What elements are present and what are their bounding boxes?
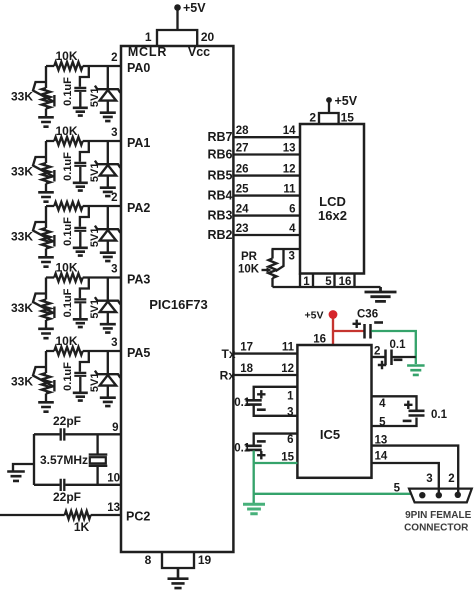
svg-text:1K: 1K [74, 520, 90, 534]
svg-text:+5V: +5V [335, 94, 358, 108]
wire IC5 pin6 net [254, 434, 298, 445]
capacitor 0.1uF (PA0) [80, 66, 89, 87]
svg-text:PA2: PA2 [127, 201, 150, 215]
svg-text:10K: 10K [55, 49, 77, 63]
polarity + (pin2 cap) [378, 361, 386, 369]
capacitor 0.1uF (PA3) [80, 278, 89, 299]
svg-text:5V1: 5V1 [89, 88, 101, 108]
label 0.1uF (PA0) [62, 77, 74, 106]
power +5V rail (top, MCLR/Vcc) [174, 1, 206, 30]
svg-text:16: 16 [339, 276, 352, 288]
svg-text:18: 18 [240, 363, 253, 375]
svg-text:33K: 33K [11, 375, 33, 389]
connector pin dot 1 [455, 492, 461, 498]
svg-text:RB6: RB6 [207, 147, 232, 161]
connector J1 9PIN FEMALE body [409, 489, 472, 503]
svg-text:2: 2 [111, 192, 117, 204]
svg-text:19: 19 [198, 553, 212, 567]
svg-text:23: 23 [236, 223, 249, 235]
svg-text:RB4: RB4 [207, 188, 232, 202]
zener D 5V1 (PA3) [107, 278, 109, 301]
wire TX net (pin17 to 11) [233, 352, 297, 354]
wire PA3 input net [46, 276, 121, 278]
svg-text:9PIN FEMALE: 9PIN FEMALE [405, 510, 471, 521]
svg-text:5V1: 5V1 [89, 299, 101, 319]
svg-text:11: 11 [283, 184, 296, 196]
thermistor 33K (PA2) [42, 228, 51, 249]
wire OSC left vertical [33, 434, 35, 485]
zener D 5V1 (PA0) [107, 66, 109, 89]
svg-text:17: 17 [240, 342, 253, 354]
label 5V1 (PA0) [89, 88, 101, 108]
ground (zener PA3) [100, 324, 116, 332]
svg-text:RB7: RB7 [207, 130, 232, 144]
polarity + (C36) [353, 320, 361, 328]
op LCD 16x2 box [300, 124, 364, 274]
ground (33K PA1) [38, 192, 54, 201]
label 0.1uF (PA3) [62, 288, 74, 317]
svg-text:RB5: RB5 [207, 168, 232, 182]
svg-text:6: 6 [289, 204, 295, 216]
thermistor 33K (PA5) [42, 373, 51, 394]
wire RB4 net [233, 194, 300, 196]
svg-text:10K: 10K [55, 124, 77, 138]
wire IC5 pin14 to connector pin3 [372, 463, 439, 495]
svg-text:8: 8 [145, 553, 152, 567]
ground (33K PA3) [38, 329, 54, 338]
pot PR 10K [271, 249, 273, 259]
resistor 1K [65, 511, 91, 519]
ground (0.1uF PA5) [73, 393, 88, 401]
svg-text:Vcc: Vcc [188, 45, 210, 59]
svg-text:10K: 10K [55, 334, 77, 348]
svg-text:+5V: +5V [183, 1, 206, 15]
wire +5V to pin16 (red) [332, 318, 334, 345]
wire IC5 pin15 net (green) [254, 451, 298, 505]
power +5V rail (LCD) [326, 94, 358, 113]
svg-text:LCD: LCD [319, 194, 346, 209]
resistor 10K (PA1) [54, 137, 82, 145]
svg-text:24: 24 [236, 204, 249, 216]
crystal X1 3.57MHz [96, 434, 98, 455]
ground (zener PA2) [100, 253, 116, 261]
wire 33K branch (PA2) [45, 206, 47, 228]
wire IC5 pins4/5 bracket [372, 396, 417, 426]
svg-text:3: 3 [111, 127, 117, 139]
wire LCD pins 1/5/16 ground net [273, 286, 381, 288]
resistor 10K (PA5) [54, 347, 82, 355]
svg-text:33K: 33K [11, 165, 33, 179]
capacitor 0.1uF (PA1) [80, 141, 89, 162]
label 5V1 (PA2) [89, 228, 101, 248]
svg-text:25: 25 [236, 184, 249, 196]
capacitor 0.1 (pin2) [386, 350, 392, 366]
svg-text:CONNECTOR: CONNECTOR [404, 523, 469, 534]
svg-text:13: 13 [107, 502, 120, 514]
wire RB3 net [233, 214, 300, 216]
svg-text:33K: 33K [11, 90, 33, 104]
capacitor 0.1 (pins4/5) [409, 411, 425, 416]
svg-text:0.1uF: 0.1uF [62, 362, 74, 391]
connector pin dot 3 [419, 492, 425, 498]
capacitor 0.1uF (PA5) [80, 351, 89, 372]
svg-text:0.1uF: 0.1uF [62, 77, 74, 106]
svg-text:3: 3 [111, 264, 117, 276]
wire OSC2 pin10 net [34, 484, 121, 486]
polarity + (pins6/15 cap) [257, 451, 265, 459]
capacitor 0.1 (pins1/3) [246, 400, 262, 404]
svg-text:Tx: Tx [221, 347, 235, 361]
svg-text:16: 16 [313, 334, 326, 346]
label 0.1uF (PA5) [62, 362, 74, 391]
wire C36 to ground (green) [372, 331, 416, 364]
wire RB6 net [233, 153, 300, 155]
wire LCD pins 2/15 bracket [319, 113, 339, 124]
polarity - (pins4/5 cap) [403, 420, 412, 423]
svg-text:3: 3 [287, 407, 293, 419]
svg-text:5V1: 5V1 [89, 228, 101, 248]
wire MCLR/Vcc bracket to +5V [157, 30, 197, 46]
svg-text:5: 5 [394, 483, 401, 495]
svg-text:10K: 10K [238, 264, 260, 276]
svg-text:PR: PR [241, 251, 258, 263]
zener D 5V1 (PA2) [107, 206, 109, 229]
svg-text:33K: 33K [11, 230, 33, 244]
svg-text:14: 14 [283, 125, 296, 137]
zener D 5V1 (PA5) [107, 351, 109, 374]
svg-text:3: 3 [426, 473, 432, 485]
wire IC5 pins1/3 bracket [254, 387, 298, 416]
thermistor 33K (PA1) [42, 163, 51, 184]
svg-text:1: 1 [145, 30, 152, 44]
svg-text:5V1: 5V1 [89, 373, 101, 393]
polarity + (pins4/5 cap) [404, 401, 412, 409]
label 5V1 (PA5) [89, 373, 101, 393]
ground (pin15, green) [243, 504, 265, 513]
polarity + (pins1/3 cap) [257, 390, 265, 398]
wire ground branch (crystal) [13, 464, 34, 471]
connector pin dot 2 [436, 492, 442, 498]
zener D 5V1 (PA1) [107, 141, 109, 164]
svg-text:PIC16F73: PIC16F73 [149, 297, 208, 312]
wire 33K branch (PA0) [45, 66, 47, 88]
svg-text:5: 5 [379, 417, 386, 429]
svg-text:14: 14 [375, 451, 388, 463]
svg-text:0.1uF: 0.1uF [62, 288, 74, 317]
svg-text:PA1: PA1 [127, 136, 150, 150]
wire IC5 pin13 to connector pin2 [372, 446, 459, 495]
power +5V node (IC5, red) [305, 310, 338, 322]
polarity - (C36) [374, 321, 383, 324]
op IC U1 PIC16F73 box [121, 46, 233, 552]
svg-text:2: 2 [374, 346, 380, 358]
wire +5V to C36 (red) [333, 330, 364, 332]
svg-text:C36: C36 [357, 309, 378, 321]
svg-text:3.57MHz: 3.57MHz [40, 453, 88, 467]
ground (LCD) [365, 287, 397, 301]
svg-text:2: 2 [111, 52, 117, 64]
wire RB7 net [233, 136, 300, 138]
svg-text:12: 12 [283, 164, 296, 176]
svg-text:+5V: +5V [305, 310, 324, 322]
capacitor 0.1 (pins6/15) [246, 446, 262, 450]
wire PA0 input net [46, 65, 121, 67]
svg-text:33K: 33K [11, 301, 33, 315]
svg-text:13: 13 [375, 435, 388, 447]
svg-text:22pF: 22pF [53, 414, 81, 428]
label 5V1 (PA3) [89, 299, 101, 319]
svg-text:15: 15 [341, 111, 355, 125]
resistor 10K (PA3) [54, 274, 82, 282]
svg-text:22pF: 22pF [53, 490, 81, 504]
svg-text:0.1: 0.1 [234, 397, 251, 409]
wire PC2 net [0, 514, 121, 516]
svg-text:MCLR: MCLR [128, 45, 167, 59]
polarity - (pin2 cap) [394, 358, 403, 361]
capacitor 0.1uF (PA2) [80, 206, 89, 227]
wire RB5 net [233, 174, 300, 176]
wire connector pin5 net (green) [254, 493, 411, 495]
svg-text:1: 1 [287, 391, 294, 403]
op IC U5 box [297, 345, 371, 478]
ground (0.1uF PA3) [73, 319, 88, 327]
capacitor C36 [365, 324, 371, 339]
svg-text:10: 10 [107, 473, 120, 485]
ground (C36, green) [407, 366, 425, 375]
svg-text:9: 9 [112, 422, 118, 434]
ground (PIC Vss) [168, 568, 189, 588]
wire OSC1 pin9 net [34, 433, 121, 435]
thermistor 33K (PA3) [42, 300, 51, 321]
ground (zener PA5) [100, 398, 116, 406]
svg-text:0.1: 0.1 [431, 409, 448, 421]
svg-text:26: 26 [236, 164, 249, 176]
svg-text:RB3: RB3 [207, 208, 232, 222]
svg-text:1: 1 [303, 276, 310, 288]
svg-text:15: 15 [281, 452, 294, 464]
capacitor 22pF top [61, 428, 65, 440]
ground (33K PA0) [38, 117, 54, 126]
ground (zener PA1) [100, 188, 116, 196]
svg-text:0.1uF: 0.1uF [62, 217, 74, 246]
svg-text:3: 3 [289, 251, 295, 263]
svg-text:4: 4 [379, 398, 386, 410]
svg-text:IC5: IC5 [320, 427, 340, 442]
svg-text:Rx: Rx [220, 369, 236, 383]
ground (zener PA0) [100, 113, 116, 121]
resistor 10K (PA2) [54, 202, 82, 210]
ground (0.1uF PA2) [73, 248, 88, 256]
ground (0.1uF PA0) [73, 108, 88, 116]
svg-text:PA3: PA3 [127, 272, 150, 286]
thermistor 33K (PA0) [42, 88, 51, 109]
svg-text:28: 28 [236, 125, 249, 137]
wire LCD pin row dividers [300, 274, 355, 288]
svg-text:4: 4 [289, 223, 296, 235]
capacitor 22pF bottom [61, 479, 65, 491]
svg-text:2: 2 [448, 473, 454, 485]
wire PA2 input net [46, 205, 121, 207]
svg-text:PA0: PA0 [127, 61, 150, 75]
svg-text:RB2: RB2 [207, 228, 232, 242]
wire RX net (pin18 to 12) [233, 374, 297, 376]
svg-text:0.1: 0.1 [234, 443, 251, 455]
svg-text:27: 27 [236, 143, 249, 155]
ground (33K PA5) [38, 402, 54, 411]
svg-text:11: 11 [282, 342, 295, 354]
label 5V1 (PA1) [89, 163, 101, 183]
wire 33K branch (PA1) [45, 141, 47, 163]
wire IC5 pin2 net [372, 356, 386, 358]
wire 33K branch (PA3) [45, 278, 47, 300]
svg-text:2: 2 [309, 111, 316, 125]
wire PA5 input net [46, 350, 121, 352]
svg-text:13: 13 [283, 143, 296, 155]
svg-text:PA5: PA5 [127, 346, 150, 360]
wire LCD pin3 net [272, 248, 301, 250]
polarity - (pins1/3 cap) [257, 408, 266, 411]
svg-text:3: 3 [111, 337, 117, 349]
ground (0.1uF PA1) [73, 183, 88, 191]
svg-text:PC2: PC2 [126, 510, 150, 524]
label 0.1uF (PA2) [62, 217, 74, 246]
svg-text:10K: 10K [55, 261, 77, 275]
svg-text:5: 5 [325, 276, 332, 288]
wire 33K branch (PA5) [45, 351, 47, 373]
svg-text:0.1uF: 0.1uF [62, 152, 74, 181]
svg-text:16x2: 16x2 [318, 208, 347, 223]
svg-text:0.1: 0.1 [390, 339, 407, 351]
label 0.1uF (PA1) [62, 152, 74, 181]
wire Vss bracket (pins 8/19) [162, 552, 194, 568]
svg-text:5V1: 5V1 [89, 163, 101, 183]
wire RB2 net [233, 234, 300, 236]
ground (crystal) [7, 472, 25, 481]
svg-text:12: 12 [281, 363, 294, 375]
svg-text:20: 20 [201, 30, 215, 44]
svg-text:6: 6 [287, 434, 293, 446]
polarity - (pins6/15 cap) [257, 440, 266, 443]
resistor 10K (PA0) [54, 62, 82, 70]
ground (33K PA2) [38, 257, 54, 266]
wire pin2 cap to green gnd [392, 356, 416, 358]
wire PA1 input net [46, 140, 121, 142]
